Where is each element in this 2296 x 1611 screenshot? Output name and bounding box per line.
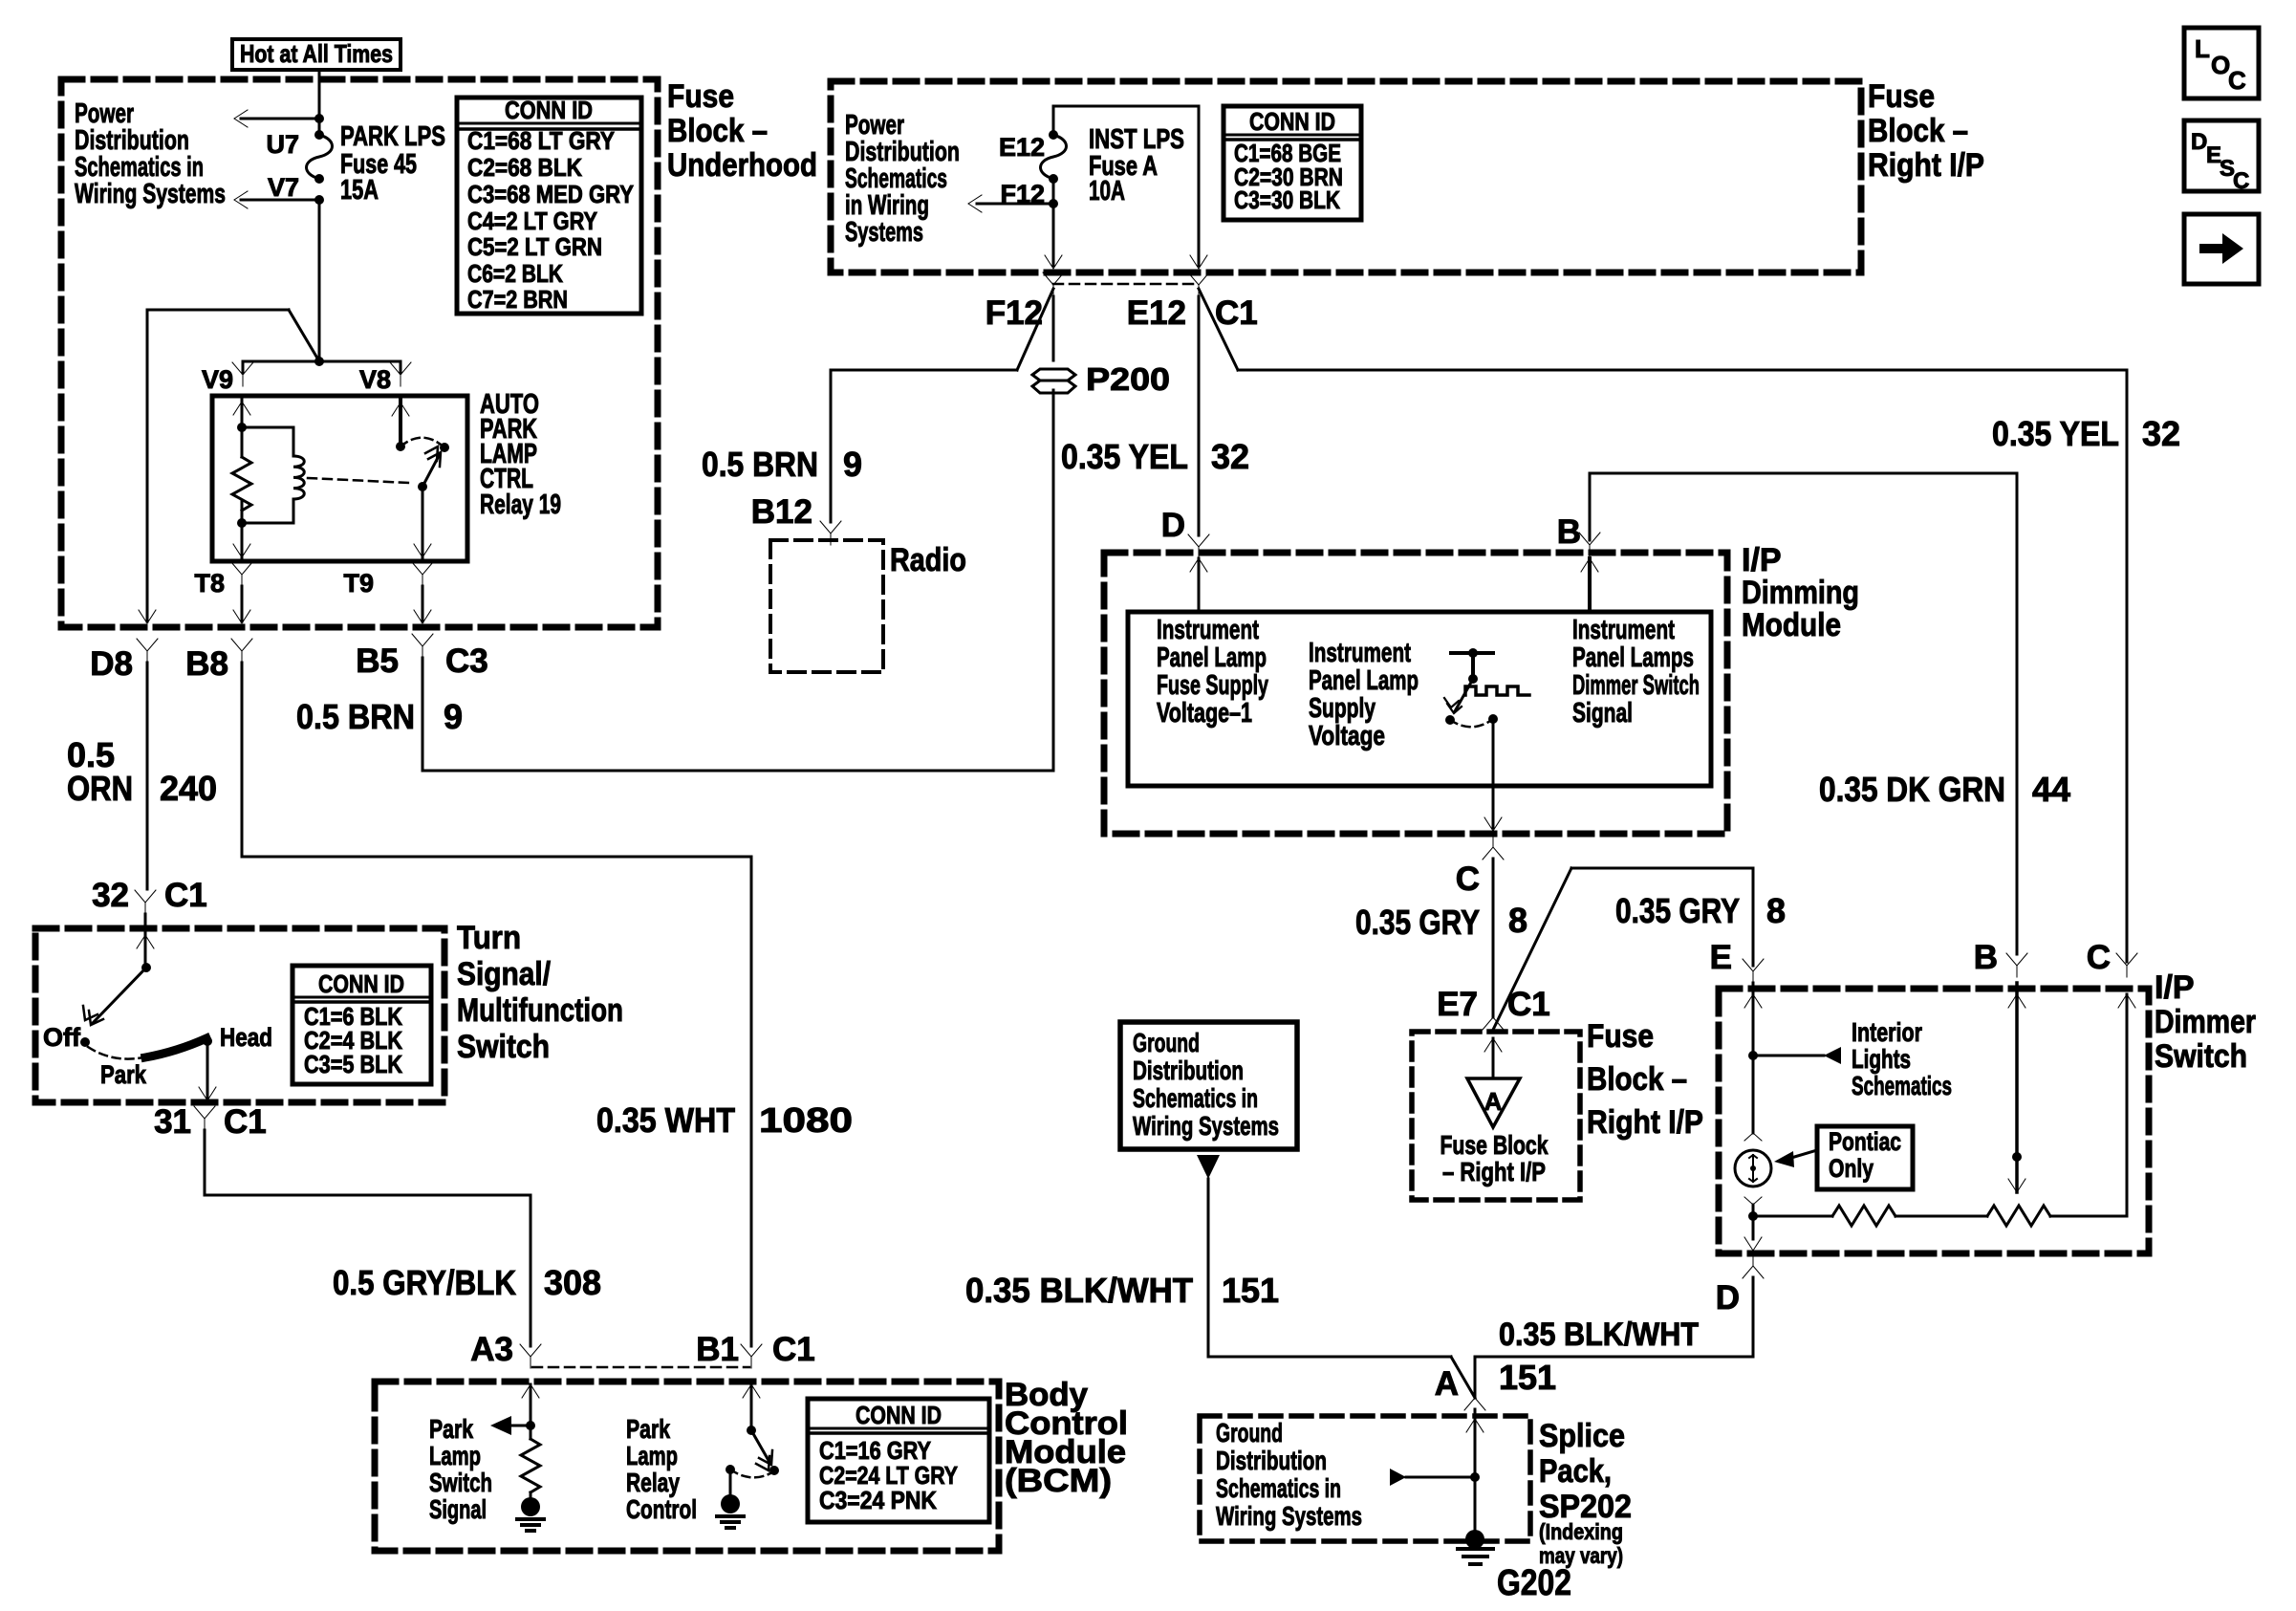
svg-text:15A: 15A [340, 175, 379, 206]
connector D8 [90, 639, 158, 683]
label Fuse Block - Right I/P (big) [1587, 1018, 1703, 1141]
svg-text:P200: P200 [1086, 361, 1170, 397]
svg-text:Pontiac: Pontiac [1829, 1127, 1901, 1156]
CONN ID table (underhood) [457, 96, 641, 314]
BCM ground right [717, 1469, 744, 1528]
svg-text:Dimmer: Dimmer [2155, 1004, 2256, 1040]
svg-text:B1: B1 [696, 1331, 739, 1368]
module switch contacts [1445, 714, 1498, 727]
svg-text:D8: D8 [90, 645, 133, 683]
svg-text:31: 31 [154, 1103, 191, 1141]
svg-text:9: 9 [843, 445, 862, 484]
svg-text:Relay: Relay [626, 1468, 680, 1497]
wire dimmer D to splice A [1475, 1277, 1753, 1396]
svg-text:8: 8 [1508, 901, 1527, 940]
svg-text:CONN ID: CONN ID [505, 96, 593, 124]
Radio dashed box [770, 540, 883, 672]
connector F12 [986, 272, 1064, 332]
INST LPS fuse housing [1053, 106, 1199, 266]
I/P Dimming Module dashed box [1104, 553, 1727, 834]
lamp connector chevron top [1744, 1133, 1762, 1141]
svg-text:0.35 WHT: 0.35 WHT [596, 1100, 735, 1140]
svg-text:0.5 BRN: 0.5 BRN [296, 697, 415, 736]
junction node above relay [314, 357, 324, 366]
connector C (dimmer) [2087, 939, 2137, 977]
svg-text:Lamp: Lamp [626, 1441, 678, 1470]
wire C to E7 [1492, 859, 1495, 1017]
connector V8 [359, 362, 411, 394]
connector housing dashed line A3-B1 [532, 1366, 749, 1369]
svg-text:C6=2 BLK: C6=2 BLK [467, 259, 563, 288]
svg-text:Wiring Systems: Wiring Systems [75, 179, 226, 209]
svg-text:Turn: Turn [457, 920, 521, 956]
label Instrument Panel Lamps Dimmer Switch Signal [1572, 615, 1700, 729]
module pin B arrow [1581, 558, 1598, 612]
connector D (dimmer) [1716, 1254, 1764, 1317]
park lamp switch signal arrow [490, 1416, 531, 1435]
connector D (module) [1161, 507, 1209, 558]
svg-text:A3: A3 [470, 1331, 513, 1368]
svg-text:– Right I/P: – Right I/P [1442, 1157, 1546, 1186]
svg-text:Ground: Ground [1216, 1418, 1283, 1448]
svg-text:Block –: Block – [1587, 1061, 1687, 1098]
svg-text:9: 9 [444, 697, 463, 736]
wire T8 to B8 [233, 586, 250, 623]
label Turn Signal/ Multifunction Switch [457, 920, 623, 1065]
svg-text:C: C [2228, 66, 2246, 95]
svg-text:Panel Lamp: Panel Lamp [1157, 642, 1267, 673]
svg-text:E7: E7 [1437, 986, 1478, 1023]
svg-text:Fuse Supply: Fuse Supply [1157, 670, 1268, 701]
label Park Lamp Relay Control [626, 1414, 697, 1524]
CONN ID table (right IP) [1224, 106, 1361, 220]
relay resistor [232, 457, 251, 511]
svg-text:G202: G202 [1497, 1563, 1571, 1603]
svg-text:0.35 BLK/WHT: 0.35 BLK/WHT [965, 1271, 1193, 1310]
svg-text:Switch: Switch [429, 1468, 492, 1497]
svg-text:Distribution: Distribution [1133, 1056, 1244, 1085]
Turn Signal Multifunction Switch dashed box [35, 928, 444, 1102]
svg-text:C: C [1456, 860, 1480, 898]
svg-text:44: 44 [2032, 770, 2070, 809]
svg-text:Only: Only [1829, 1154, 1874, 1183]
svg-text:Instrument: Instrument [1157, 615, 1259, 645]
lamp connector chevron bottom [1744, 1197, 1762, 1205]
svg-text:Fuse: Fuse [1587, 1018, 1654, 1055]
svg-text:U7: U7 [266, 130, 299, 159]
svg-text:Pack,: Pack, [1539, 1453, 1612, 1490]
svg-text:C4=2 LT GRY: C4=2 LT GRY [467, 207, 597, 235]
svg-text:Head: Head [220, 1023, 272, 1052]
wire D8 to turn signal 32 C1 [146, 663, 149, 889]
Body Control Module dashed box [375, 1382, 999, 1551]
svg-text:V9: V9 [202, 365, 233, 394]
label AUTO PARK LAMP CTRL Relay 19 [480, 389, 561, 520]
label Splice Pack SP202 [1539, 1418, 1632, 1568]
headlamp switch feed [137, 914, 154, 972]
svg-text:32: 32 [2142, 414, 2180, 453]
interior lights ref arrow [1753, 1047, 1841, 1064]
wire E12 to dimming module D [1198, 296, 1201, 535]
svg-text:0.5 GRY/BLK: 0.5 GRY/BLK [333, 1263, 516, 1302]
label Power Distribution Schematics Wiring Systems (underhood) [75, 98, 226, 209]
svg-text:(BCM): (BCM) [1005, 1463, 1112, 1499]
node U7 arrow to Power Distribution [234, 110, 324, 127]
svg-text:0.35 GRY: 0.35 GRY [1355, 903, 1480, 942]
svg-text:Module: Module [1742, 607, 1841, 643]
svg-text:Fuse Block: Fuse Block [1440, 1130, 1549, 1160]
svg-text:Fuse: Fuse [667, 78, 734, 115]
svg-text:C3=24 PNK: C3=24 PNK [819, 1486, 937, 1514]
svg-text:Park: Park [626, 1414, 670, 1444]
svg-text:C3: C3 [445, 642, 488, 680]
connector C [1456, 836, 1504, 898]
svg-text:Park: Park [429, 1414, 473, 1444]
I/P Dimmer Switch dashed box [1719, 989, 2149, 1253]
svg-text:Relay 19: Relay 19 [480, 490, 561, 520]
label 0.5 BRN 9 (radio) [702, 445, 862, 484]
thick arc Park to Head [145, 1038, 206, 1057]
head output wire [199, 1041, 216, 1100]
fuse block feed arrow [1484, 1038, 1502, 1078]
svg-text:Supply: Supply [1309, 693, 1375, 724]
wire P200 to F12 [1052, 296, 1055, 360]
svg-text:32: 32 [1211, 437, 1249, 476]
svg-text:Splice: Splice [1539, 1418, 1625, 1454]
label 0.35 BLK/WHT 151 (left) [965, 1271, 1279, 1310]
connector B12 [751, 493, 841, 545]
module inner box [1128, 612, 1711, 786]
connector A (splice) [1435, 1358, 1556, 1410]
label Body Control Module (BCM) [1005, 1377, 1128, 1499]
svg-text:V7: V7 [268, 173, 299, 202]
BCM pin B1 interior [743, 1384, 760, 1435]
relay switch common V8 [392, 396, 409, 451]
Fuse Block Underhood dashed box [61, 79, 658, 627]
Pontiac Only arrow [1774, 1150, 1817, 1167]
relay coil bottom node [233, 501, 250, 561]
wire E7 to dimmer switch E [1493, 868, 1753, 1030]
wire E dot to lamp [1752, 1056, 1755, 1133]
fuse F45 PARK LPS 15A [307, 130, 333, 184]
module output wire to C [1484, 719, 1502, 831]
connector V9 [202, 362, 253, 394]
connector 32 C1 [92, 877, 207, 914]
svg-text:0.35 BLK/WHT: 0.35 BLK/WHT [1499, 1317, 1699, 1353]
label Power Distribution Schematics in Wiring Systems (right IP) [845, 110, 960, 248]
svg-text:0.35 DK GRN: 0.35 DK GRN [1819, 770, 2005, 809]
Ground Distribution Schematics box [1120, 1022, 1297, 1149]
svg-text:308: 308 [544, 1263, 601, 1302]
wire split to V9 V8 [243, 361, 401, 373]
svg-text:PARK LPS: PARK LPS [340, 121, 445, 152]
connector B (dimmer) [1974, 939, 2027, 977]
svg-text:Instrument: Instrument [1309, 638, 1411, 668]
label 0.35 DK GRN 44 [1819, 770, 2070, 809]
wire B5 to F12 via P200 [422, 390, 1053, 771]
svg-text:1080: 1080 [759, 1100, 853, 1140]
svg-text:C7=2 BRN: C7=2 BRN [467, 285, 568, 314]
svg-text:T9: T9 [343, 569, 374, 598]
svg-text:C3=5 BLK: C3=5 BLK [304, 1050, 402, 1078]
dimmer track wire R2 to C [2050, 994, 2127, 1216]
relay coil [242, 427, 304, 523]
svg-text:Schematics in: Schematics in [1133, 1083, 1258, 1113]
label Instrument Panel Lamp Fuse Supply Voltage-1 [1157, 615, 1268, 729]
svg-text:C3=30 BLK: C3=30 BLK [1234, 185, 1340, 214]
node V7 arrow to Power Distribution [234, 191, 324, 208]
svg-text:(Indexing: (Indexing [1539, 1519, 1623, 1544]
connector E12 C1 [1127, 272, 1258, 332]
connector A3 [470, 1331, 541, 1368]
label Park Lamp Switch Signal [429, 1414, 492, 1524]
svg-text:240: 240 [160, 769, 217, 808]
svg-text:C1: C1 [224, 1103, 267, 1141]
svg-text:Park: Park [100, 1060, 147, 1089]
svg-text:Interior: Interior [1852, 1017, 1922, 1047]
PWM square wave symbol [1465, 686, 1529, 695]
svg-text:Dimming: Dimming [1742, 575, 1859, 611]
label I/P Dimmer Switch [2155, 969, 2256, 1075]
dimmer pin B wiper [2008, 983, 2025, 1192]
svg-text:0.35 YEL: 0.35 YEL [1992, 414, 2119, 453]
svg-text:Panel Lamp: Panel Lamp [1309, 665, 1419, 696]
svg-text:C1: C1 [1215, 294, 1258, 332]
label 0.35 GRY 8 (second) [1615, 891, 1786, 930]
svg-text:CONN ID: CONN ID [318, 969, 404, 998]
LOC reference box [2184, 28, 2259, 98]
svg-text:B5: B5 [356, 642, 399, 680]
fuse A INST LPS 10A [1041, 130, 1067, 184]
svg-text:Fuse: Fuse [1868, 78, 1935, 115]
dimmer resistor R2 [1987, 1206, 2050, 1226]
inline connector P200 [1032, 369, 1075, 393]
svg-text:Schematics: Schematics [1852, 1071, 1952, 1100]
svg-text:32: 32 [92, 877, 129, 914]
connector T9 [343, 562, 433, 598]
BCM resistor [521, 1439, 540, 1492]
label 0.5 BRN 9 (left) [296, 697, 463, 736]
relay actuation dashed link [308, 478, 409, 483]
dimmer track wire R1 to R2 [1895, 1215, 1987, 1218]
svg-text:E12: E12 [999, 133, 1045, 162]
connector E [1710, 939, 1764, 983]
svg-text:C: C [2087, 939, 2111, 976]
ground ref triangle [1197, 1155, 1220, 1179]
label I/P Dimming Module [1742, 542, 1859, 643]
svg-text:Dimmer Switch: Dimmer Switch [1572, 670, 1700, 701]
label 0.35 WHT 1080 [596, 1100, 853, 1140]
splice feed wire with arrow [1466, 1409, 1484, 1539]
label Interior Lights Schematics [1852, 1017, 1952, 1100]
label INST LPS Fuse A 10A [1089, 124, 1184, 207]
arrow D8 wire at box edge [139, 610, 156, 623]
svg-text:CONN ID: CONN ID [856, 1401, 942, 1429]
svg-text:Right I/P: Right I/P [1587, 1104, 1703, 1141]
svg-text:I/P: I/P [1742, 542, 1782, 578]
svg-text:Lamp: Lamp [429, 1441, 481, 1470]
label 0.35 YEL 32 (module) [1061, 437, 1249, 476]
wire B8 to BCM B1 [242, 663, 751, 1346]
svg-text:Switch: Switch [457, 1029, 550, 1065]
headlamp switch blade to Off [83, 968, 146, 1025]
Fuse Block Right I/P lower dashed box [1412, 1032, 1580, 1200]
svg-text:D: D [1161, 507, 1185, 544]
switch travel dashed arc [88, 1047, 143, 1059]
svg-text:B8: B8 [185, 645, 228, 683]
dimmer lamp [1735, 1150, 1771, 1186]
wire module B to dimmer B [1590, 473, 2017, 954]
triangle A symbol [1467, 1078, 1520, 1127]
dimmer resistor R1 [1832, 1206, 1895, 1226]
ground G202 [1458, 1530, 1493, 1564]
wire ground ref to splice A [1208, 1179, 1475, 1398]
svg-text:C1: C1 [1507, 986, 1550, 1023]
svg-text:C2=68 BLK: C2=68 BLK [467, 153, 582, 182]
svg-text:A: A [1484, 1087, 1503, 1116]
svg-text:Panel Lamps: Panel Lamps [1572, 642, 1694, 673]
svg-text:V8: V8 [359, 365, 391, 394]
svg-text:A: A [1435, 1365, 1459, 1403]
svg-text:Block –: Block – [1868, 113, 1968, 149]
svg-text:Instrument: Instrument [1572, 615, 1675, 645]
svg-text:Control: Control [626, 1494, 697, 1524]
wire fuse V7 down to relay junction [318, 200, 321, 361]
svg-text:Distribution: Distribution [1216, 1446, 1327, 1475]
wire F12 to radio B12 [831, 289, 1053, 522]
module dimmer switch symbol [1451, 648, 1493, 684]
label 0.5 GRY/BLK 308 [333, 1263, 601, 1302]
svg-text:B12: B12 [751, 493, 812, 531]
connector housing dashed line F12-E12 [1053, 283, 1199, 286]
svg-text:Signal/: Signal/ [457, 956, 551, 992]
svg-text:Hot at All Times: Hot at All Times [240, 39, 393, 68]
svg-text:Signal: Signal [429, 1494, 487, 1524]
CONN ID table (turn signal) [292, 966, 431, 1084]
svg-text:I/P: I/P [2155, 969, 2195, 1006]
connector 31 C1 [154, 1103, 267, 1141]
svg-text:Wiring Systems: Wiring Systems [1133, 1111, 1279, 1141]
svg-text:Block –: Block – [667, 113, 768, 149]
Hot at All Times box [232, 39, 401, 70]
svg-text:Ground: Ground [1133, 1028, 1200, 1057]
arrow E12 leg at box edge [1190, 255, 1207, 269]
CONN ID table (BCM) [808, 1399, 989, 1522]
dimmer resistor track node [1748, 1205, 1758, 1221]
svg-text:F12: F12 [986, 294, 1043, 332]
connector B8 [185, 639, 252, 683]
svg-text:D: D [1716, 1279, 1740, 1317]
dimmer pin C arrow [2118, 994, 2135, 1008]
svg-text:151: 151 [1499, 1358, 1556, 1397]
svg-text:0.35 YEL: 0.35 YEL [1061, 437, 1188, 476]
dimmer pin E interior [1744, 983, 1762, 1060]
svg-text:C1=68 LT GRY: C1=68 LT GRY [467, 126, 615, 155]
label 0.35 YEL 32 (dimmer) [1992, 414, 2180, 453]
splice ref arrow [1390, 1469, 1480, 1486]
BCM driver contact [726, 1465, 772, 1477]
connector B (module top) [1557, 513, 1600, 556]
svg-text:C1: C1 [772, 1331, 815, 1368]
svg-text:ORN: ORN [67, 769, 133, 808]
svg-text:Schematics in: Schematics in [1216, 1473, 1341, 1503]
Pontiac Only box [1817, 1126, 1913, 1189]
svg-text:D: D [2191, 129, 2207, 155]
relay switch contact [440, 443, 449, 452]
svg-text:C5=2 LT GRN: C5=2 LT GRN [467, 232, 602, 261]
module switch blade arrow [1444, 679, 1473, 713]
arrow F12 leg at box edge [1045, 255, 1062, 269]
svg-text:Underhood: Underhood [667, 147, 817, 184]
svg-text:8: 8 [1766, 891, 1786, 930]
DESC reference box [2184, 120, 2259, 194]
svg-text:Right I/P: Right I/P [1868, 147, 1984, 184]
svg-text:Systems: Systems [845, 217, 923, 248]
connector B1 C1 [696, 1331, 815, 1368]
label Ground Distribution Schematics (splice) [1216, 1418, 1362, 1531]
svg-text:0.35 GRY: 0.35 GRY [1615, 891, 1740, 930]
dimmer output wire to D [1744, 1216, 1762, 1251]
label 0.5 ORN 240 [67, 735, 217, 808]
svg-text:L: L [2195, 34, 2210, 63]
svg-text:Voltage–1: Voltage–1 [1157, 698, 1252, 729]
connector B5 C3 [356, 634, 488, 680]
wire 31 to BCM A3 [205, 1130, 531, 1346]
BCM pin A3 interior [522, 1384, 539, 1439]
relay switch output wire [414, 487, 431, 561]
label PARK LPS Fuse 45 15A [340, 121, 445, 206]
svg-text:E12: E12 [1127, 294, 1186, 332]
svg-text:Multifunction: Multifunction [457, 992, 623, 1029]
wire T9 to B5 [414, 586, 431, 623]
label 0.35 GRY 8 (first) [1355, 901, 1527, 942]
contact Head [203, 1023, 272, 1052]
relay 19 box [212, 396, 467, 561]
svg-text:10A: 10A [1089, 176, 1125, 207]
BCM ground left [517, 1492, 544, 1531]
connector E7 C1 [1437, 986, 1550, 1030]
svg-text:B: B [1557, 513, 1581, 551]
svg-text:Off: Off [43, 1023, 81, 1052]
svg-text:Switch: Switch [2155, 1038, 2247, 1075]
svg-text:151: 151 [1222, 1271, 1279, 1310]
relay switch travel dashed arc [401, 438, 444, 447]
wire from Hot box to fuse 45 [318, 70, 321, 135]
Fuse Block Right I/P dashed box [831, 81, 1861, 272]
label Fuse Block - Right I/P (small) [1440, 1130, 1549, 1186]
relay switch blade [418, 446, 441, 491]
label Fuse Block - Underhood [667, 78, 817, 184]
label Fuse Block - Right I/P [1868, 78, 1984, 184]
svg-text:Lights: Lights [1852, 1044, 1911, 1074]
relay coil pin V9 interior [233, 396, 250, 457]
arrow from F12 to Power Distribution [968, 179, 1058, 266]
svg-text:Wiring Systems: Wiring Systems [1216, 1501, 1362, 1531]
forward arrow box [2184, 214, 2259, 284]
Splice Pack dashed box [1200, 1416, 1530, 1541]
label Instrument Panel Lamp Supply Voltage [1309, 638, 1419, 751]
BCM relay driver blade [751, 1430, 779, 1475]
contact Off [43, 1023, 90, 1052]
connector T8 [194, 562, 252, 598]
svg-text:C1: C1 [164, 877, 207, 914]
svg-text:C3=68 MED GRY: C3=68 MED GRY [467, 180, 634, 208]
svg-text:B: B [1974, 939, 1998, 976]
svg-text:Radio: Radio [890, 542, 966, 578]
svg-text:Voltage: Voltage [1309, 721, 1385, 751]
svg-text:Signal: Signal [1572, 698, 1633, 729]
svg-text:T8: T8 [194, 569, 225, 598]
